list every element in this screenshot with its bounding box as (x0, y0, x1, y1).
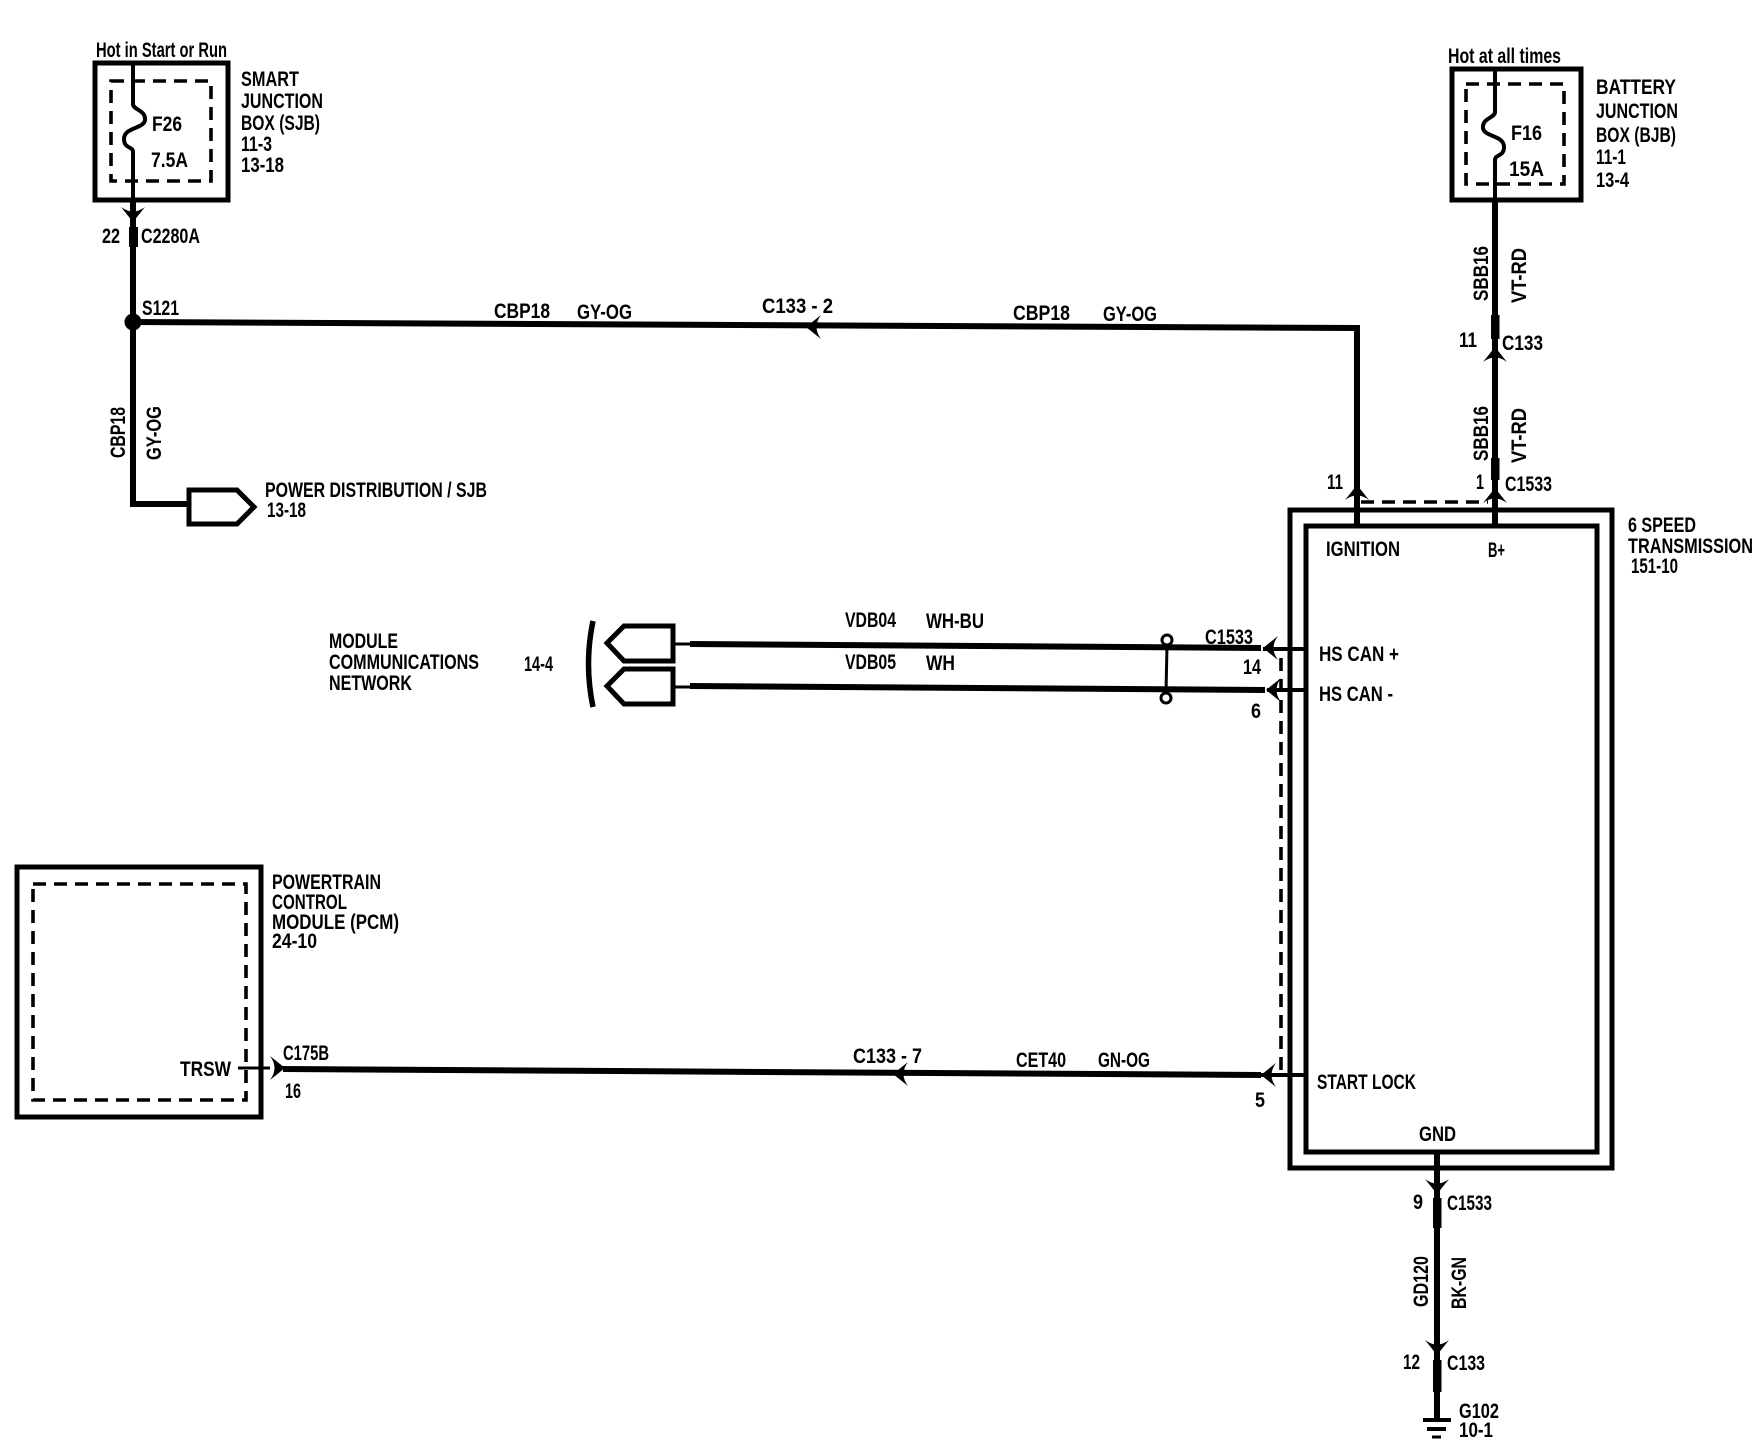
wire from fuse F26 down to splice S121 (130, 200, 136, 322)
PCM dashed internal box (33, 884, 246, 1100)
svg-text:CBP18: CBP18 (1013, 302, 1070, 325)
svg-text:CBP18: CBP18 (494, 300, 550, 323)
svg-text:GN-OG: GN-OG (1098, 1049, 1150, 1072)
svg-text:GND: GND (1419, 1123, 1456, 1146)
svg-text:TRSW: TRSW (180, 1058, 231, 1081)
connector arrow HS CAN + (left) (1263, 636, 1278, 660)
svg-text:10-1: 10-1 (1459, 1419, 1493, 1442)
connector C1533 pin 9 arrow (down) (1425, 1179, 1449, 1194)
SJB dashed internal box (111, 81, 211, 181)
transmission inner box (1306, 526, 1597, 1152)
wire GND from transmission bottom (1434, 1152, 1440, 1418)
svg-text:151-10: 151-10 (1631, 555, 1678, 578)
svg-text:1: 1 (1476, 471, 1484, 494)
connector arrow HS CAN - (left) (1266, 678, 1281, 702)
svg-text:START LOCK: START LOCK (1317, 1071, 1416, 1094)
battery junction box BJB outline (1452, 69, 1581, 200)
stub into START LOCK pin (1261, 1073, 1306, 1077)
connector bar at C2280A (129, 227, 138, 247)
svg-text:HS CAN -: HS CAN - (1319, 683, 1393, 706)
fuse F26 element (wire with squiggle) (124, 63, 145, 200)
wire drop from top run into transmission IGNITION pin 11 (1354, 325, 1360, 526)
connector C2280A arrow (down) (121, 207, 145, 222)
svg-text:CBP18: CBP18 (107, 407, 130, 458)
svg-text:BK-GN: BK-GN (1448, 1257, 1471, 1309)
svg-text:BOX (BJB): BOX (BJB) (1596, 124, 1676, 147)
svg-text:VDB05: VDB05 (845, 651, 896, 674)
svg-text:VT-RD: VT-RD (1508, 248, 1531, 303)
twisted pair symbol (1162, 635, 1172, 645)
svg-text:5: 5 (1255, 1089, 1265, 1112)
svg-text:13-18: 13-18 (267, 499, 306, 522)
svg-text:14: 14 (1243, 656, 1261, 679)
svg-text:16: 16 (285, 1080, 301, 1103)
svg-text:11-3: 11-3 (241, 133, 272, 156)
svg-text:13-4: 13-4 (1596, 169, 1629, 192)
stub into HS CAN + pin (1263, 647, 1306, 651)
svg-text:F26: F26 (152, 113, 182, 136)
powertrain control module PCM outline (17, 867, 261, 1117)
svg-text:CET40: CET40 (1016, 1049, 1066, 1072)
stub into HS CAN - pin (1267, 688, 1306, 692)
svg-text:C175B: C175B (283, 1042, 329, 1065)
svg-text:C133 - 7: C133 - 7 (853, 1045, 922, 1068)
svg-text:9: 9 (1413, 1191, 1423, 1214)
connector C175B pin 16 arrow (right) (270, 1056, 285, 1080)
dashed line across top between pins 11 and 1 (1361, 500, 1488, 504)
svg-text:15A: 15A (1509, 158, 1544, 181)
svg-text:COMMUNICATIONS: COMMUNICATIONS (329, 651, 479, 674)
svg-text:6 SPEED: 6 SPEED (1628, 514, 1696, 537)
svg-text:BOX (SJB): BOX (SJB) (241, 112, 320, 135)
svg-text:C133: C133 (1447, 1352, 1485, 1375)
svg-text:11: 11 (1459, 329, 1477, 352)
svg-text:MODULE: MODULE (329, 630, 398, 653)
brace (big parenthesis) (589, 621, 594, 707)
smart junction box SJB outline (95, 63, 228, 200)
svg-text:C1533: C1533 (1505, 473, 1552, 496)
connector C133-7 arrow (left) (893, 1062, 908, 1086)
svg-text:GD120: GD120 (1410, 1256, 1433, 1307)
connector C1533 pin 11 arrow (up) at transmission ignition entry (1345, 485, 1369, 500)
svg-text:BATTERY: BATTERY (1596, 76, 1676, 99)
wire from S121 down to power distribution pentagon (133, 322, 188, 504)
stub from pentagon 1 (673, 643, 692, 646)
svg-text:WH: WH (926, 652, 955, 675)
connector C133 pin 11 arrow (up) (1483, 347, 1507, 362)
power distribution off-page connector pentagon (189, 490, 254, 524)
svg-text:22: 22 (102, 225, 120, 248)
svg-text:JUNCTION: JUNCTION (1596, 100, 1678, 123)
svg-text:F16: F16 (1511, 122, 1542, 145)
connector C133-2 arrow (left) (806, 315, 821, 339)
svg-text:SBB16: SBB16 (1470, 246, 1493, 301)
svg-text:24-10: 24-10 (272, 930, 317, 953)
wire SBB16 VT-RD from fuse F16 down to transmission B+ (1492, 200, 1498, 526)
BJB dashed internal box (1466, 84, 1564, 184)
splice S121 junction dot (125, 314, 142, 331)
connector C1533 pin 1 arrow (up) (1483, 488, 1507, 503)
svg-text:6: 6 (1251, 700, 1261, 723)
wire VDB04 WH-BU (690, 644, 1261, 648)
wire VDB05 WH (690, 686, 1265, 690)
svg-text:WH-BU: WH-BU (926, 610, 984, 633)
svg-text:Hot at all times: Hot at all times (1448, 45, 1561, 68)
svg-text:GY-OG: GY-OG (577, 301, 632, 324)
ground symbol G102 (1423, 1418, 1451, 1422)
wire CBP18 GY-OG horizontal from S121 to transmission drop (131, 322, 1357, 328)
svg-text:11: 11 (1327, 471, 1343, 494)
svg-text:C133: C133 (1502, 332, 1543, 355)
dashed vertical line along left side down to start lock (1279, 658, 1283, 1077)
svg-text:IGNITION: IGNITION (1326, 538, 1400, 561)
fuse F16 element (wire with squiggle) (1483, 69, 1504, 200)
svg-text:13-18: 13-18 (241, 154, 284, 177)
svg-text:VT-RD: VT-RD (1508, 408, 1531, 463)
svg-text:C2280A: C2280A (141, 225, 200, 248)
svg-text:C1533: C1533 (1447, 1192, 1492, 1215)
svg-text:Hot in Start or Run: Hot in Start or Run (96, 39, 227, 62)
wire CET40 GN-OG from PCM to transmission START LOCK (283, 1069, 1261, 1075)
svg-text:B+: B+ (1488, 539, 1505, 562)
stub from pentagon 2 (673, 686, 692, 689)
svg-text:HS CAN +: HS CAN + (1319, 643, 1399, 666)
svg-text:GY-OG: GY-OG (1103, 303, 1157, 326)
svg-text:VDB04: VDB04 (845, 609, 896, 632)
svg-text:7.5A: 7.5A (151, 149, 188, 172)
svg-text:S121: S121 (142, 297, 179, 320)
transmission outer box (1290, 510, 1612, 1168)
svg-text:SBB16: SBB16 (1470, 406, 1493, 461)
off-page pentagon HS CAN - (607, 669, 673, 704)
svg-text:C133 - 2: C133 - 2 (762, 295, 833, 318)
svg-text:C1533: C1533 (1205, 626, 1253, 649)
svg-text:SMART: SMART (241, 68, 299, 91)
svg-text:12: 12 (1403, 1351, 1420, 1374)
stub from TRSW pin to connector (238, 1067, 270, 1070)
off-page pentagon HS CAN + (607, 626, 673, 661)
connector C133 pin 12 arrow (down) (1425, 1340, 1449, 1355)
svg-text:14-4: 14-4 (524, 653, 553, 676)
svg-text:GY-OG: GY-OG (143, 406, 166, 460)
svg-text:NETWORK: NETWORK (329, 672, 412, 695)
connector arrow at START LOCK pin 5 (left) (1261, 1063, 1276, 1087)
svg-text:11-1: 11-1 (1596, 146, 1626, 169)
svg-text:JUNCTION: JUNCTION (241, 90, 323, 113)
